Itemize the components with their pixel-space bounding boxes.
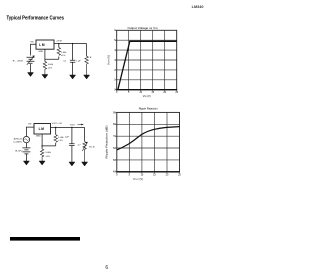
svg-text:Ripple Rejection (dB): Ripple Rejection (dB) [105,125,109,158]
svg-text:8 - 25V: 8 - 25V [13,61,24,63]
svg-text:VIN (V): VIN (V) [143,94,151,98]
svg-text:Output Voltage vs VIN: Output Voltage vs VIN [128,26,159,30]
svg-text:GND: GND [38,51,43,53]
svg-text:LM: LM [39,43,45,47]
svg-text:5.00k: 5.00k [46,152,52,154]
svg-text:ΔVIN=1V: ΔVIN=1V [14,137,23,140]
svg-text:±1%: ±1% [46,156,50,158]
svg-text:VOUT (V): VOUT (V) [133,177,143,181]
svg-text:Typical Performance Curves: Typical Performance Curves [7,15,65,21]
svg-text:6: 6 [105,265,108,271]
svg-text:5.00k: 5.00k [48,64,54,66]
svg-text:1.00k: 1.00k [61,52,67,54]
svg-text:±1%: ±1% [61,55,65,57]
svg-text:RL 1k: RL 1k [89,147,95,149]
svg-text:1 µF: 1 µF [76,61,81,63]
svg-text:Ripple Rejection: Ripple Rejection [139,106,158,110]
svg-text:VOUT = 5V: VOUT = 5V [52,123,63,125]
svg-text:±1%: ±1% [48,68,52,70]
svg-text:±1%: ±1% [58,140,62,142]
svg-text:f=120Hz: f=120Hz [14,141,22,143]
svg-text:8.5V: 8.5V [15,151,23,153]
svg-text:VOUT (V): VOUT (V) [107,55,111,65]
svg-text:1µF: 1µF [65,137,69,139]
svg-text:GND: GND [36,136,41,138]
svg-text:LM340: LM340 [192,5,204,9]
svg-text:+VOUT: +VOUT [56,40,62,42]
svg-text:VOUT: VOUT [70,124,75,126]
svg-text:1.00k: 1.00k [58,137,64,139]
svg-text:LM: LM [39,127,45,131]
